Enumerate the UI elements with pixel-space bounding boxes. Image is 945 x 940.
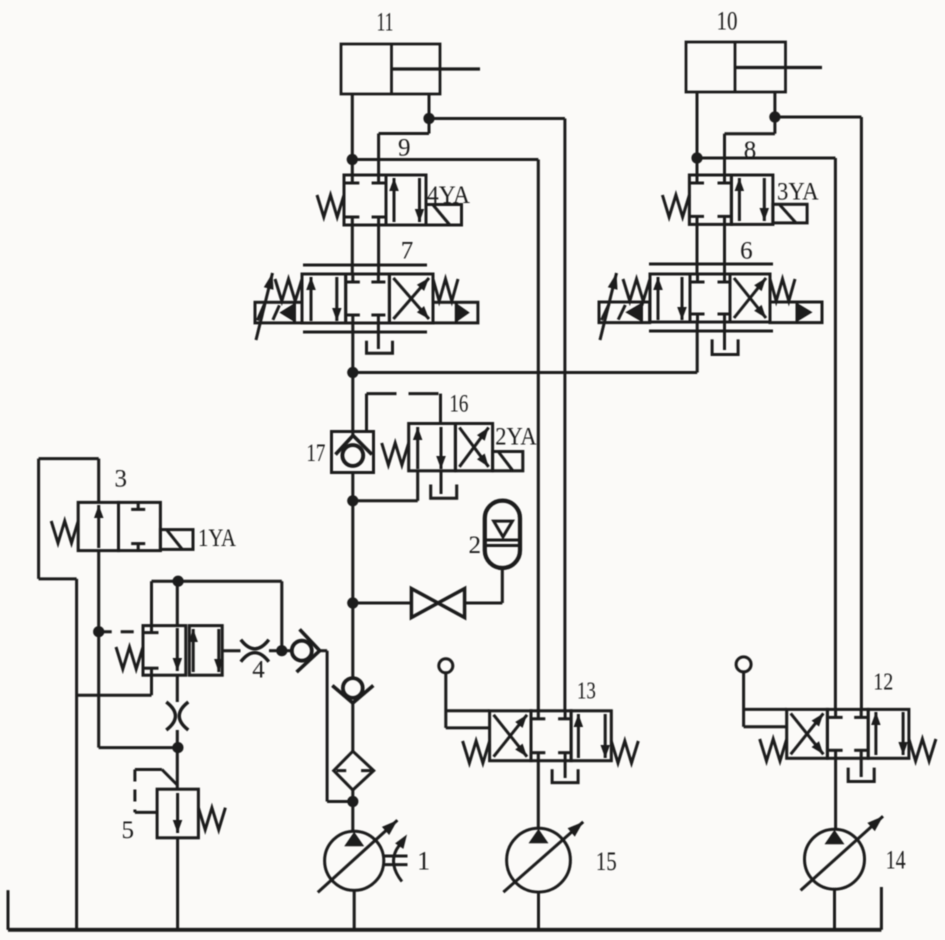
valve 3 solenoid 2-position valve xyxy=(78,502,160,550)
wire pump 14 to rail xyxy=(833,889,836,930)
drain of valve 7 xyxy=(367,341,393,353)
left spring valve 6 xyxy=(623,279,650,301)
spring of relief valve 5 xyxy=(198,808,225,830)
wire jog to valve9 port B xyxy=(379,119,429,176)
svg-text:13: 13 xyxy=(577,678,596,704)
pressure compensator of pump 1 xyxy=(384,835,408,882)
node junction top loop xyxy=(173,576,184,587)
pilot operated check valve 17 xyxy=(332,432,374,473)
wire filter to pump 1 xyxy=(351,790,354,832)
wire valve 13 to pump 15 xyxy=(537,761,540,829)
wire check to filter xyxy=(351,703,354,751)
svg-text:1: 1 xyxy=(417,846,430,875)
svg-text:3: 3 xyxy=(115,466,128,493)
svg-text:5: 5 xyxy=(121,817,134,844)
wire throttle to junction xyxy=(269,649,282,652)
drain of valve 16 xyxy=(431,485,457,499)
svg-text:6: 6 xyxy=(740,237,753,264)
wire junction to long line to valve13 left xyxy=(352,160,538,711)
tank rail xyxy=(8,887,881,930)
pump 15 variable displacement pump xyxy=(507,828,571,892)
wire supply to valve6 P xyxy=(353,322,697,373)
svg-text:4YA: 4YA xyxy=(427,182,470,209)
solenoid 2YA xyxy=(493,452,523,471)
throttle below counterbalance xyxy=(166,702,175,730)
check valve above filter xyxy=(343,678,363,698)
relief valve 5 xyxy=(157,789,198,838)
wire bypass down to pump junction xyxy=(327,651,353,802)
node junction shutoff tee xyxy=(347,597,358,608)
node junction valve8-A xyxy=(691,152,702,163)
spring of counterbalance valve xyxy=(116,647,143,669)
wire valve16 A to main line xyxy=(353,471,418,501)
right spring valve 13 xyxy=(611,741,638,763)
svg-text:15: 15 xyxy=(596,847,617,876)
wire counterbalance top port loop xyxy=(152,581,282,651)
pilot line check17 to valve16 xyxy=(367,394,441,432)
wire junction to long line to valve13 right xyxy=(429,119,565,711)
svg-text:10: 10 xyxy=(717,7,738,36)
wire counterbalance down xyxy=(176,675,179,702)
svg-text:2YA: 2YA xyxy=(495,424,536,451)
wire pump 1 to rail xyxy=(353,890,356,929)
spring of valve 16 xyxy=(382,443,409,465)
wire relief valve to tank rail xyxy=(176,838,179,930)
svg-text:16: 16 xyxy=(449,391,468,418)
wire main line down xyxy=(351,501,354,679)
wire junction to long line to valve12 left xyxy=(697,158,835,709)
node junction relief tee xyxy=(172,742,183,753)
accumulator 2 xyxy=(485,501,520,568)
spring of valve 8 xyxy=(662,195,689,217)
filter xyxy=(334,751,374,790)
wire pump 15 to rail xyxy=(537,892,540,930)
left spring valve 13 xyxy=(463,741,490,763)
arrow through left solenoid valve 6 xyxy=(600,273,617,340)
svg-text:3YA: 3YA xyxy=(777,179,819,206)
wire supply down to check valve 17 xyxy=(351,373,354,436)
wire valve9 to valve7 left xyxy=(351,225,354,274)
right proportional solenoid of valve 7 xyxy=(433,302,478,323)
wire cylinder11 right port down xyxy=(428,94,431,119)
lever of valve 13 xyxy=(439,659,490,728)
arrow through left solenoid valve 7 xyxy=(256,273,273,340)
svg-text:2: 2 xyxy=(468,532,481,559)
valve 9 solenoid 2-position valve xyxy=(344,175,426,225)
check valve angled xyxy=(282,629,327,672)
valve 16 solenoid 2-position valve xyxy=(409,424,493,471)
svg-text:8: 8 xyxy=(744,137,757,164)
node junction pump 1 xyxy=(347,796,358,807)
node junction cyl11-B xyxy=(423,113,434,124)
wire counterbalance right to throttle xyxy=(222,649,240,652)
node junction below check17 xyxy=(347,495,358,506)
wire cylinder11 left port to valve9 port A xyxy=(351,94,354,175)
wire valve 12 to pump 14 xyxy=(834,758,837,829)
wire junction to long line to valve12 right xyxy=(775,117,862,709)
wire through counterbalance valve vertical xyxy=(176,581,179,625)
solenoid 4YA xyxy=(426,205,462,226)
valve 7 proportional directional valve xyxy=(302,265,433,332)
lever of valve 12 xyxy=(736,657,787,727)
wire throttle to relief valve xyxy=(176,730,179,789)
wire valve7 P down xyxy=(351,323,354,373)
pump 14 variable displacement pump xyxy=(805,829,865,889)
left spring valve 7 xyxy=(275,279,302,301)
solenoid 1YA xyxy=(160,530,193,550)
svg-text:14: 14 xyxy=(886,845,906,874)
svg-text:17: 17 xyxy=(306,440,325,467)
left proportional solenoid of valve 6 xyxy=(599,302,650,323)
wire jog to valve8 port B xyxy=(725,117,775,175)
wire loop from valve3 top xyxy=(39,459,99,930)
right spring valve 12 xyxy=(909,739,936,761)
svg-text:9: 9 xyxy=(398,135,411,162)
valve 13 manual 3-position valve xyxy=(490,711,612,761)
spring of valve 3 xyxy=(51,521,78,543)
wire check17 down xyxy=(351,473,354,501)
drain of valve 13 xyxy=(552,769,578,782)
wire counterbalance bottom-left port xyxy=(77,675,152,695)
pilot line to counterbalance valve xyxy=(99,630,143,633)
pilot line of relief valve 5 xyxy=(135,770,177,813)
solenoid 3YA xyxy=(773,204,807,223)
node junction cyl11-A xyxy=(347,154,358,165)
wire valve8 to valve6 right xyxy=(723,224,726,274)
right spring valve 6 xyxy=(770,279,795,301)
svg-text:12: 12 xyxy=(873,670,893,696)
cylinder 11 xyxy=(341,44,480,94)
drain of valve 12 xyxy=(848,768,874,782)
wire valve3 down xyxy=(99,551,178,748)
node junction P xyxy=(347,367,358,378)
right spring valve 7 xyxy=(433,279,458,301)
throttle 4 xyxy=(241,640,269,649)
node junction cyl10-B xyxy=(769,111,780,122)
spring of valve 9 xyxy=(317,195,344,217)
wire valve8 to valve6 left xyxy=(696,224,699,274)
shut-off valve xyxy=(353,568,503,618)
cylinder 10 xyxy=(686,42,822,92)
node junction bypass xyxy=(276,645,287,656)
left proportional solenoid of valve 7 xyxy=(255,302,302,323)
svg-text:11: 11 xyxy=(377,7,394,36)
drain of valve 6 xyxy=(712,339,738,354)
wire cylinder10 right port down xyxy=(773,92,776,117)
left spring valve 12 xyxy=(760,739,787,761)
svg-text:1YA: 1YA xyxy=(198,525,236,552)
valve 6 proportional directional valve xyxy=(649,264,773,331)
wire valve9 to valve7 right xyxy=(377,225,380,274)
right proportional solenoid of valve 6 xyxy=(770,302,822,323)
pump 1 variable displacement pump xyxy=(325,831,384,890)
wire cylinder10 left port to valve8 port A xyxy=(696,92,699,175)
node pilot tap valve4 xyxy=(93,626,104,637)
svg-text:7: 7 xyxy=(401,238,414,265)
valve 12 manual 3-position valve xyxy=(787,709,909,758)
svg-text:4: 4 xyxy=(252,657,265,684)
counterbalance valve of group 4 xyxy=(143,626,224,676)
valve 8 solenoid 2-position valve xyxy=(689,175,773,224)
